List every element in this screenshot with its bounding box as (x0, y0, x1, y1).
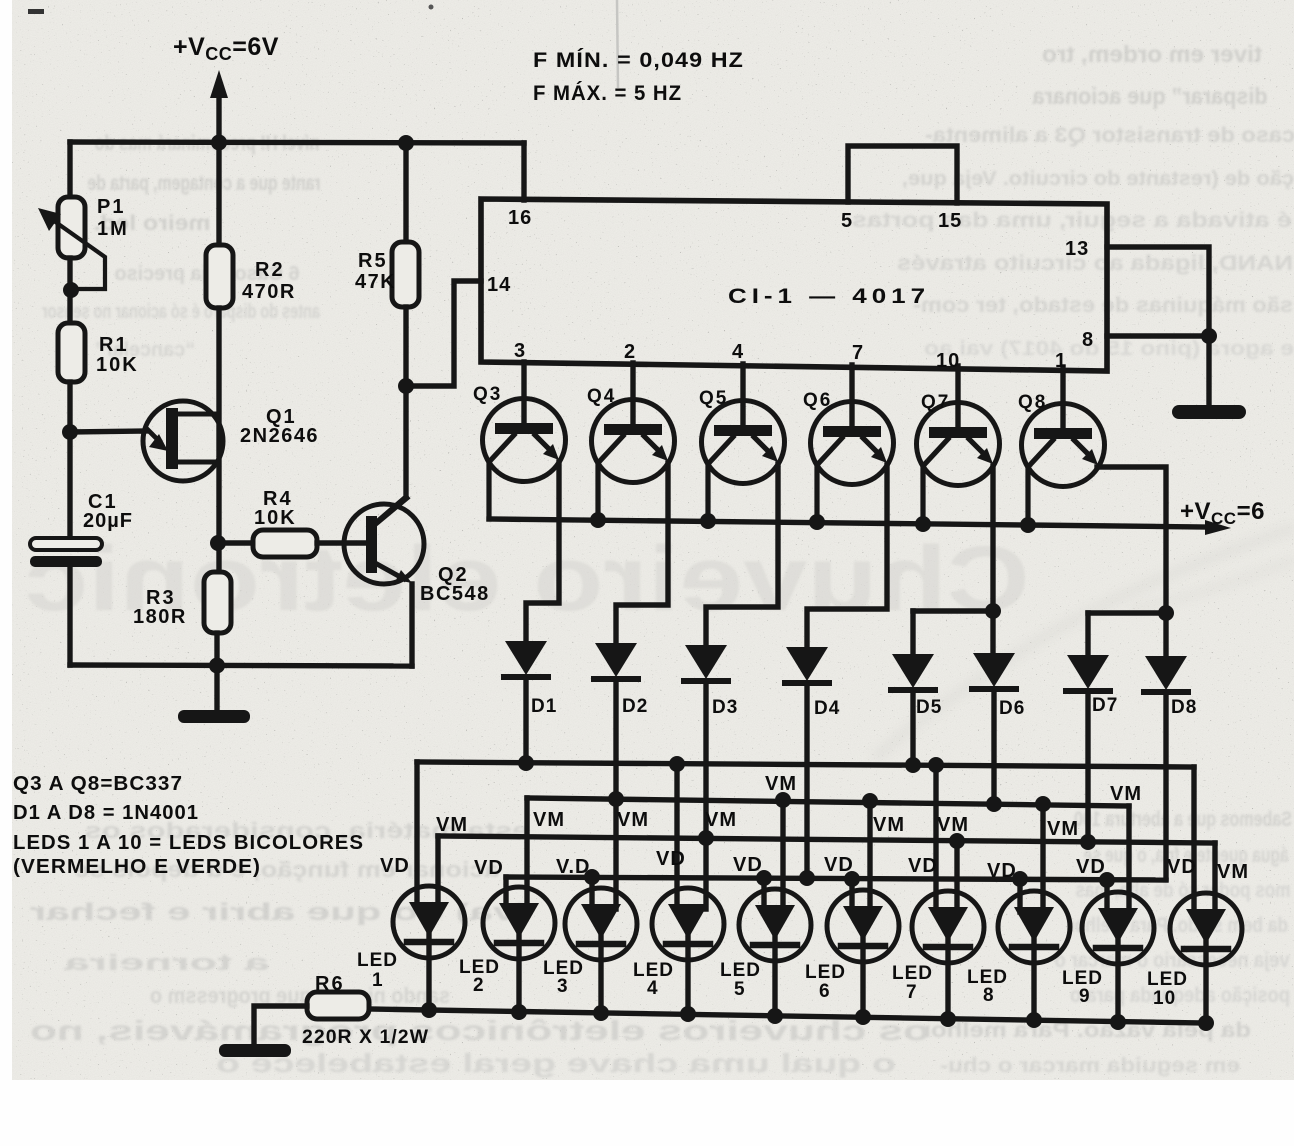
transistor Q6 (811, 402, 894, 523)
resistor R4 body (253, 530, 317, 557)
svg-text:VD: VD (1076, 856, 1106, 878)
diode D6 (972, 653, 1016, 689)
svg-text:7: 7 (852, 342, 864, 364)
node: bus-Q7 junction (915, 516, 931, 532)
svg-text:(VERMELHO E VERDE): (VERMELHO E VERDE) (13, 856, 261, 878)
wire LED7 cathode to bus (945, 939, 950, 1019)
resistor R2 (216, 142, 221, 245)
node: bus LED10 junction (1198, 1015, 1214, 1031)
node: bus LED2 junction (511, 1004, 527, 1020)
wire R1 down to C1 (67, 382, 72, 539)
LED LED9 (bicolor) (1082, 892, 1154, 964)
wire LED8 cathode to bus (1031, 939, 1036, 1020)
diode D2 (594, 643, 638, 679)
svg-text:é ativada a seguir, uma das po: é ativada a seguir, uma das portas (852, 209, 1292, 232)
svg-text:10K: 10K (96, 354, 139, 376)
diode D8 (1144, 656, 1188, 692)
svg-text:14: 14 (487, 274, 511, 296)
pin 7 wire to Q6 base (849, 365, 854, 426)
op-amp/IC U1: CI-1 4017 body (481, 199, 1107, 371)
svg-text:V.D: V.D (556, 856, 591, 878)
transistor Q1 (UJT 2N2646) (143, 401, 223, 481)
svg-text:VM: VM (436, 814, 468, 836)
wire rail to P1 (67, 142, 72, 197)
svg-text:2N2646: 2N2646 (240, 425, 319, 447)
node: bus LED3 junction (593, 1005, 609, 1021)
svg-text:Q5: Q5 (699, 388, 728, 409)
node: bus-Q4 junction (590, 512, 606, 528)
svg-text:VD: VD (987, 860, 1017, 882)
wire R6 to ground (254, 1006, 307, 1044)
svg-text:CI-1 — 4017: CI-1 — 4017 (728, 285, 930, 308)
wire row B to LED5 (780, 800, 785, 910)
transistor Q5 (702, 401, 785, 522)
svg-text:D7: D7 (1092, 695, 1118, 716)
node: P1/R1 junction (63, 282, 79, 298)
svg-text:VM: VM (1047, 818, 1079, 840)
wire D3 to LED4 (703, 681, 708, 909)
node: pin14 junction (398, 378, 414, 394)
LED LED8 (bicolor) (998, 891, 1070, 963)
svg-text:D4: D4 (814, 698, 840, 719)
node: emitter branch junction (62, 424, 78, 440)
resistor R2 body (206, 245, 233, 308)
svg-text:ção de (restante do circuito.: ção de (restante do circuito. Veja que, (902, 168, 1294, 190)
ground (R6) (219, 1044, 291, 1057)
wire to Q1 emitter (70, 431, 147, 432)
svg-text:LED: LED (357, 950, 398, 971)
node: R4 branch junction (210, 535, 226, 551)
wire LED4 cathode to bus (685, 936, 690, 1014)
wire row B to LED8 (1040, 804, 1045, 912)
svg-text:disparar” que acionara: disparar” que acionara (1032, 83, 1267, 109)
wire row B to LED6 (867, 801, 872, 911)
wire LED10 cathode to bus (1203, 941, 1208, 1023)
svg-text:são máquinas de estado, ter co: são máquinas de estado, ter com- (913, 294, 1293, 317)
LED LED3 (bicolor) (565, 888, 637, 960)
svg-text:10: 10 (936, 350, 960, 372)
svg-text:BC548: BC548 (420, 583, 490, 605)
svg-text:47K: 47K (355, 271, 396, 293)
svg-text:VD: VD (824, 854, 854, 876)
node: bus LED8 junction (1026, 1012, 1042, 1028)
node: D5/D6 feed junction (985, 603, 1001, 619)
svg-text:R1: R1 (99, 334, 129, 356)
wire LED3 cathode to bus (598, 936, 603, 1013)
LED LED1 (bicolor) (393, 886, 465, 958)
ground (oscillator) (214, 665, 219, 710)
pin 3 wire to Q3 base (521, 362, 526, 423)
svg-text:10K: 10K (254, 507, 297, 529)
svg-text:os chuveiros eletrônicos progr: os chuveiros eletrônicos programáveis, n… (30, 1015, 930, 1046)
wire LED2 cathode to bus (516, 935, 521, 1012)
wire R3 to bottom rail (214, 633, 219, 665)
LED LED2 (bicolor) (483, 887, 555, 959)
wire R5 to Q2 collector (377, 307, 406, 522)
svg-text:VM: VM (937, 814, 969, 836)
ground (IC) stem (1206, 336, 1211, 405)
wire Q8 emitter to D7/D8 (1097, 467, 1166, 656)
resistor R1 body (58, 323, 85, 382)
svg-text:5: 5 (841, 210, 853, 232)
node: bus LED1 junction (421, 1002, 437, 1018)
svg-text:VD: VD (1167, 856, 1197, 878)
svg-text:2: 2 (624, 341, 636, 363)
svg-text:(va) do que abrir e fechar: (va) do que abrir e fechar (30, 899, 530, 926)
svg-text:F MÁX. = 5 HZ: F MÁX. = 5 HZ (533, 82, 682, 105)
svg-text:15: 15 (938, 210, 962, 232)
diode D1 (504, 641, 548, 677)
svg-text:16: 16 (508, 207, 532, 229)
node: D7/D8 feed junction (1158, 605, 1174, 621)
wire row A to LED7 (933, 765, 938, 912)
node: bus LED7 junction (940, 1011, 956, 1027)
svg-text:Q7: Q7 (921, 392, 950, 413)
svg-text:2: 2 (473, 975, 485, 996)
wire Q4 emitter to D2 (616, 463, 668, 643)
wire Q6 emitter to D4 (807, 465, 887, 647)
svg-text:1M: 1M (97, 218, 129, 240)
node: bus-Q5 junction (700, 513, 716, 529)
svg-text:o qual uma chave geral estabel: o qual uma chave geral estabelece o (216, 1048, 896, 1078)
LED LED6 (bicolor) (827, 890, 899, 962)
wire Q5 emitter to D3 (706, 464, 778, 645)
svg-text:VM: VM (873, 814, 905, 836)
node: rail-R5 junction (398, 135, 414, 151)
wire row C to LED7 (954, 841, 959, 912)
pin 10 wire to Q7 base (955, 366, 960, 427)
pin 4 wire to Q5 base (740, 364, 745, 425)
svg-text:NAND, ligada ao circuito atrav: NAND, ligada ao circuito através (897, 252, 1293, 275)
wire D7 to row C (1085, 691, 1090, 842)
svg-text:Q8: Q8 (1018, 392, 1047, 413)
svg-text:VD: VD (656, 848, 686, 870)
wire D4 to row D (804, 683, 809, 878)
resistor R6 body (307, 992, 369, 1019)
transistor Q4 (592, 400, 675, 521)
resistor R5 body (392, 242, 419, 307)
svg-text:LEDS 1 A 10 = LEDS BICOLORES: LEDS 1 A 10 = LEDS BICOLORES (13, 832, 364, 854)
wire P1 to R1 (67, 258, 72, 323)
wire Q7 emitter to D5/D6 (990, 466, 995, 653)
wire Q3 emitter to D1 (526, 462, 559, 641)
svg-text:4: 4 (732, 341, 744, 363)
svg-text:4: 4 (647, 978, 659, 999)
node: bus-Q6 junction (809, 514, 825, 530)
resistor R3 body (204, 572, 231, 633)
svg-text:10: 10 (1153, 988, 1176, 1009)
wire D2 to LED3 (613, 679, 618, 909)
node: bus LED4 junction (680, 1006, 696, 1022)
svg-text:220R X 1/2W: 220R X 1/2W (302, 1027, 429, 1048)
svg-text:a torneira: a torneira (63, 950, 270, 975)
resistor R4 (218, 540, 253, 545)
svg-text:D1 A D8 = 1N4001: D1 A D8 = 1N4001 (13, 802, 199, 824)
svg-text:D3: D3 (712, 697, 738, 718)
svg-text:LED: LED (1147, 969, 1188, 990)
svg-text:VM: VM (1110, 783, 1142, 805)
wire D5 to row A (910, 690, 915, 765)
diode D7 (1066, 655, 1110, 691)
wire row D to LED9 (1104, 880, 1109, 913)
svg-text:3: 3 (557, 976, 569, 997)
LED LED5 (bicolor) (739, 889, 811, 961)
LED LED7 (bicolor) (912, 891, 984, 963)
wire row D to LED5 (761, 878, 766, 910)
svg-text:Sabemos que a abertura 100: Sabemos que a abertura 100 (1074, 808, 1292, 831)
svg-text:3: 3 (514, 340, 526, 362)
svg-text:VM: VM (1217, 861, 1249, 883)
ground (IC) (1172, 405, 1246, 419)
svg-text:VD: VD (908, 855, 938, 877)
wire LED9 cathode to bus (1115, 940, 1120, 1022)
svg-text:VM: VM (705, 809, 737, 831)
svg-text:LED: LED (892, 963, 933, 984)
LED LED10 (bicolor) (1170, 893, 1242, 965)
wire Q2 emitter to bottom rail (409, 584, 414, 666)
svg-text:D1: D1 (531, 696, 557, 717)
P1 wiper arrow (47, 216, 105, 289)
svg-text:F MÍN. = 0,049 HZ: F MÍN. = 0,049 HZ (533, 49, 744, 72)
pin 8 wire (1107, 333, 1209, 338)
svg-text:VD: VD (474, 857, 504, 879)
svg-text:R6: R6 (315, 973, 345, 995)
svg-text:Q6: Q6 (803, 390, 832, 411)
wire D8 to row D (1163, 692, 1168, 879)
pin 16 wire (521, 143, 526, 200)
svg-text:P1: P1 (97, 196, 125, 218)
svg-text:9: 9 (1079, 986, 1091, 1007)
svg-text:180R: 180R (133, 606, 187, 628)
svg-text:D8: D8 (1171, 697, 1197, 718)
wire row D to LED6 (849, 879, 854, 911)
transistor Q7 (917, 403, 1000, 525)
node: pin8/13 junction (1201, 328, 1217, 344)
svg-text:antes do disparo é só acionar: antes do disparo é só acionar no sensor (42, 301, 320, 323)
node: bus LED6 junction (855, 1009, 871, 1025)
matrix row B (VM bus of LED2/3/5/6/8/9) (527, 798, 1129, 806)
svg-text:da bem saído. Para melhor: da bem saído. Para melhor (1068, 914, 1288, 937)
matrix row D (VD bus of LED2/3/5/6/8/9) (506, 877, 1166, 880)
svg-text:6: 6 (819, 981, 831, 1002)
svg-text:R5: R5 (358, 250, 388, 272)
svg-text:em seguida marcar o chu-: em seguida marcar o chu- (940, 1055, 1240, 1077)
svg-text:Q3 A Q8=BC337: Q3 A Q8=BC337 (13, 773, 183, 795)
LED cathode bus (369, 1009, 1205, 1023)
pin 5-15 loop wire (848, 146, 957, 203)
node: ground junction (209, 658, 225, 674)
svg-text:rante que a contagem, parta de: rante que a contagem, parta de (88, 172, 321, 195)
pin 1 wire to Q8 base (1060, 367, 1065, 428)
wire LED6 cathode to bus (860, 938, 865, 1017)
svg-text:VM: VM (765, 773, 797, 795)
svg-text:470R: 470R (242, 281, 296, 303)
svg-text:1: 1 (1055, 350, 1067, 372)
svg-text:VM: VM (533, 809, 565, 831)
transistor Q3 (483, 399, 566, 520)
svg-text:caso de transistor Q3 a alimen: caso de transistor Q3 a alimenta- (925, 124, 1294, 147)
diode D3 (684, 645, 728, 681)
svg-text:Q4: Q4 (587, 386, 616, 407)
pin 2 wire to Q4 base (630, 363, 635, 424)
svg-text:D5: D5 (916, 697, 942, 718)
pin 13 wire (1107, 247, 1209, 336)
wire row D to LED8 (1017, 879, 1022, 912)
svg-text:D6: D6 (999, 698, 1025, 719)
wire D6 to row B (991, 689, 996, 804)
svg-text:8: 8 (983, 985, 995, 1006)
node: rail-R2 junction (211, 135, 227, 151)
resistor P1 body (58, 197, 85, 258)
wire LED1 cathode to bus (426, 934, 431, 1010)
wire LED5 cathode to bus (772, 937, 777, 1016)
matrix row A (VD bus of LED1/4/7/10) (417, 762, 1194, 767)
svg-text:VD: VD (380, 855, 410, 877)
wire R2 to Q1/R3 column (216, 308, 221, 572)
wire row A to LED4 (674, 764, 679, 909)
svg-text:1: 1 (372, 970, 384, 991)
svg-text:LED: LED (805, 962, 846, 983)
LED LED4 (bicolor) (652, 888, 724, 960)
svg-text:8: 8 (1082, 329, 1094, 351)
wire R4 to Q2 base (317, 540, 366, 545)
matrix row C (VM bus of LED1/7/10) (438, 836, 1215, 843)
diode D4 (785, 647, 829, 683)
top rail wire (70, 142, 524, 143)
transistor Q8 (1022, 404, 1105, 526)
transistor Q2 (BC548) (344, 498, 424, 584)
diode D5 (891, 654, 935, 690)
node: bus-Q8 junction (1020, 517, 1036, 533)
svg-text:tiver em ordem, tro: tiver em ordem, tro (1042, 41, 1262, 67)
wire C1 to bottom rail (67, 567, 72, 665)
svg-text:5: 5 (734, 979, 746, 1000)
+VCC collector bus (489, 519, 1206, 527)
svg-text:7: 7 (906, 982, 918, 1003)
+VCC supply arrow (216, 97, 221, 142)
node: bus LED9 junction (1110, 1014, 1126, 1030)
svg-text:LED: LED (720, 960, 761, 981)
svg-text:D2: D2 (622, 696, 648, 717)
wire row D to LED3 (589, 877, 594, 909)
pin 14 wire (406, 281, 481, 386)
svg-text:20µF: 20µF (83, 510, 133, 532)
resistor R5 (403, 143, 408, 242)
svg-text:R2: R2 (255, 259, 285, 281)
node: bus LED5 junction (767, 1008, 783, 1024)
bottom rail wire (70, 665, 412, 666)
svg-text:VD: VD (733, 854, 763, 876)
capacitor C1 (30, 538, 102, 567)
svg-text:Q3: Q3 (473, 384, 502, 405)
wire D1 to row A (523, 677, 528, 763)
svg-text:VM: VM (617, 809, 649, 831)
svg-text:13: 13 (1065, 238, 1089, 260)
